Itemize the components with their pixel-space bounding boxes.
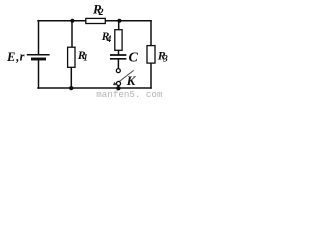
svg-text:C: C [129, 51, 139, 66]
svg-text:1: 1 [83, 52, 88, 62]
svg-text:4: 4 [106, 34, 112, 44]
svg-text:K: K [126, 73, 137, 88]
svg-text:r: r [20, 50, 25, 64]
svg-text:manfen5. com: manfen5. com [96, 89, 163, 98]
svg-text:3: 3 [162, 54, 168, 64]
svg-text:2: 2 [98, 8, 104, 18]
svg-text:E: E [6, 50, 15, 64]
